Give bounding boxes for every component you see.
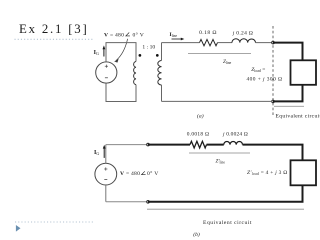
source V2 label [120, 170, 159, 177]
primary polarity dot [139, 54, 142, 57]
equivalent circuit extent line (b) [147, 208, 304, 210]
Z'line brace [189, 152, 250, 154]
node dot top (a) [272, 41, 275, 44]
equivalent circuit extent line (a) [274, 105, 304, 107]
svg-text:Ex 2.1 [3]: Ex 2.1 [3] [19, 22, 89, 36]
load box Zload [291, 60, 317, 85]
primary loop wire [106, 43, 136, 102]
equivalent-circuit boundary dashed line [272, 26, 274, 115]
secondary bottom wire [162, 100, 273, 102]
thin bottom wire source to node (b) [106, 201, 147, 203]
secondary top wire to resistor [162, 42, 200, 44]
source V2 circle [95, 163, 117, 185]
svg-text:V = 480: V = 480 [120, 171, 140, 177]
thin top wire source to node (b) [106, 144, 147, 146]
thick wire inductor to load (b) [148, 145, 303, 202]
resistor 0.18 ohm [200, 39, 218, 45]
svg-text:V = 480: V = 480 [104, 32, 124, 38]
inductor j0.0024 ohm [224, 142, 243, 145]
source plus [105, 65, 108, 68]
Iline arrow [172, 38, 185, 41]
svg-text:0° V: 0° V [147, 170, 159, 177]
svg-text:Equivalent circuit: Equivalent circuit [203, 220, 252, 226]
wire resistor to inductor [218, 42, 233, 44]
Zline brace [188, 53, 251, 55]
secondary vertical wire [161, 43, 163, 102]
svg-text:Zline: Zline [223, 59, 232, 65]
svg-text:0° V: 0° V [133, 31, 145, 38]
svg-text:(a): (a) [197, 112, 204, 119]
source V1 label [104, 31, 144, 38]
svg-text:Iline: Iline [170, 32, 178, 38]
svg-text:0.18 Ω: 0.18 Ω [199, 30, 217, 36]
svg-text:0.0018 Ω: 0.0018 Ω [187, 131, 210, 137]
load box Z'load [291, 160, 317, 185]
wire inductor to node [256, 42, 273, 44]
IG arrow [103, 45, 106, 56]
svg-text:j 0.0024 Ω: j 0.0024 Ω [222, 131, 248, 137]
secondary polarity dot [156, 54, 159, 57]
svg-text:(b): (b) [193, 231, 200, 238]
thick wire node to resistor (b) [148, 144, 190, 146]
load loop thick wire (a) [273, 43, 303, 102]
svg-text:IG: IG [94, 150, 99, 156]
svg-text:Zload =: Zload = [251, 67, 265, 73]
source minus (b) [104, 179, 107, 181]
transformer secondary winding [158, 61, 162, 86]
bottom dotted placeholder line [15, 221, 94, 223]
node dot bottom (b) [147, 201, 150, 204]
blue bullet triangle [16, 225, 21, 232]
svg-text:1 : 10: 1 : 10 [142, 45, 155, 51]
source plus (b) [104, 167, 107, 170]
label pointer arrow to source [114, 39, 127, 63]
svg-text:IG: IG [94, 50, 99, 56]
source V1 circle [96, 62, 117, 83]
resistor 0.0018 ohm [190, 141, 207, 148]
node dot top (b) [147, 143, 150, 146]
svg-text:Z′line: Z′line [216, 159, 226, 165]
title dotted underline [15, 38, 94, 40]
wire resistor to inductor (b) [207, 144, 224, 146]
svg-text:400 + j 300 Ω: 400 + j 300 Ω [247, 76, 283, 82]
svg-text:Equivalent circuit: Equivalent circuit [276, 113, 320, 119]
source minus [105, 77, 108, 79]
svg-text:Z′load = 4 + j 3 Ω: Z′load = 4 + j 3 Ω [247, 170, 288, 176]
node dot bottom (a) [272, 100, 275, 103]
IG arrow (b) [103, 145, 106, 158]
svg-text:j 0.24 Ω: j 0.24 Ω [232, 31, 253, 37]
transformer primary winding [134, 62, 136, 85]
source vertical wires (b) [105, 145, 107, 202]
inductor j0.24 ohm [232, 39, 256, 43]
